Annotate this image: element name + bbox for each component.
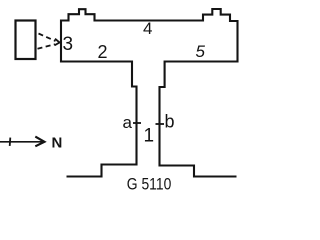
svg-text:a: a xyxy=(123,113,133,132)
north arrow line xyxy=(0,141,44,143)
north arrow head xyxy=(35,137,44,147)
mastaba outline wall xyxy=(61,9,238,177)
svg-text:N: N xyxy=(52,134,63,151)
dashed sight line upper xyxy=(39,34,56,42)
svg-text:2: 2 xyxy=(98,42,108,62)
svg-text:1: 1 xyxy=(144,125,155,146)
serdab rectangle xyxy=(16,21,36,60)
tick b on east corridor wall xyxy=(156,123,165,125)
svg-text:b: b xyxy=(165,111,175,131)
tick a on west corridor wall xyxy=(133,122,141,124)
dashed sight line lower xyxy=(38,44,56,48)
svg-text:4: 4 xyxy=(143,19,152,38)
svg-text:G 5110: G 5110 xyxy=(127,174,172,193)
sight line arrowhead xyxy=(55,39,60,46)
north arrow tail tick xyxy=(9,138,12,146)
svg-text:3: 3 xyxy=(63,34,74,55)
svg-text:5: 5 xyxy=(196,42,206,61)
